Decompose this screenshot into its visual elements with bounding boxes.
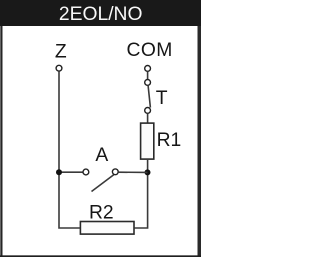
svg-text:T: T [156, 88, 168, 109]
wire: R1 bottom down and bottom run to R2 right [135, 160, 148, 228]
svg-text:R1: R1 [157, 130, 182, 151]
wire: left junction to switch A left contact [59, 171, 83, 173]
svg-text:Z: Z [55, 41, 67, 62]
svg-text:A: A [95, 145, 108, 166]
tamper switch T blade (closed) [148, 86, 150, 108]
wire: switch A right contact to right junction [118, 171, 147, 173]
tamper switch T lower contact [145, 108, 151, 114]
svg-text:COM: COM [127, 40, 173, 61]
svg-text:2EOL/NO: 2EOL/NO [59, 4, 143, 25]
svg-text:R2: R2 [89, 202, 114, 223]
switch A left contact [83, 169, 89, 175]
title bar 2EOL/NO [0, 0, 201, 26]
tamper switch T upper contact [145, 80, 151, 86]
terminal Z [56, 65, 62, 71]
wire: Z column down and bottom run to R2 left [59, 71, 80, 228]
junction dot right (node below R1) [145, 169, 151, 175]
junction dot left (node on Z column) [56, 169, 62, 175]
switch A blade (open) [92, 175, 114, 192]
resistor R2 [80, 222, 134, 235]
resistor R1 [141, 123, 154, 159]
wire: tamper contact to R1 top [147, 114, 149, 123]
switch A right contact [112, 169, 118, 175]
terminal COM [145, 66, 151, 72]
wire: COM terminal to tamper contact [147, 72, 149, 80]
